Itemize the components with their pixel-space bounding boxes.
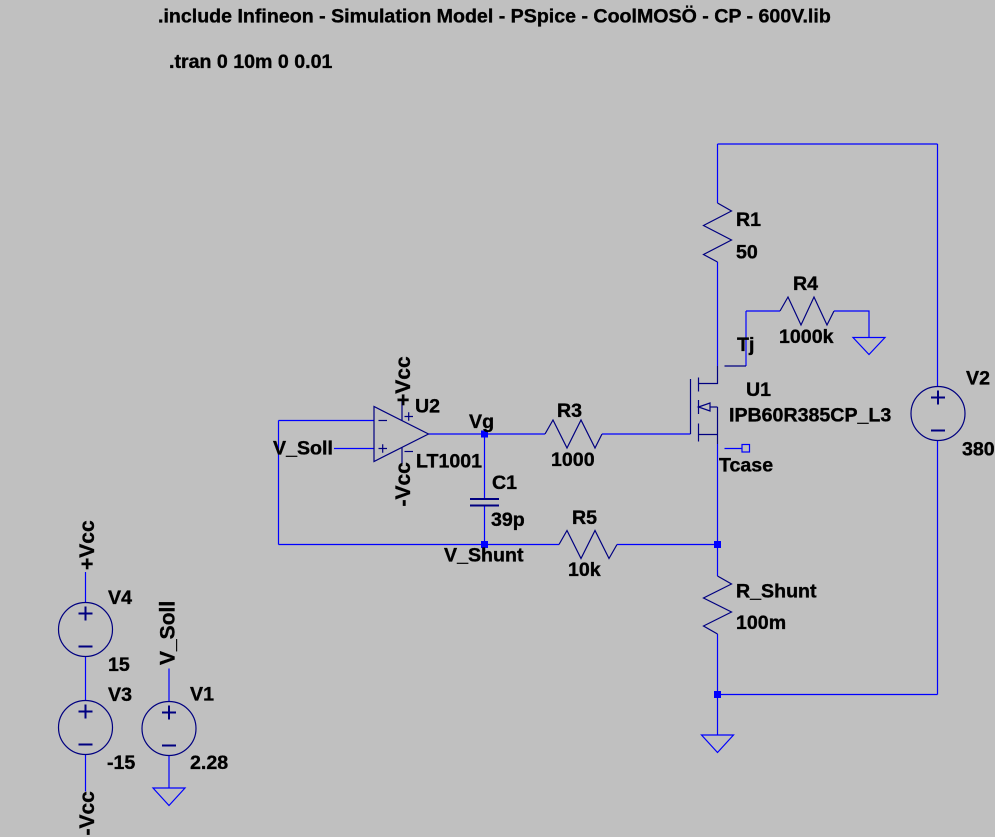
node bottom junction [714,691,721,698]
voltage source V4 plus [79,607,93,621]
svg-text:V2: V2 [966,368,990,390]
svg-text:V3: V3 [108,684,132,706]
op-amp U2 input minus [379,420,388,422]
wire V3 to -Vcc [85,755,87,792]
svg-text:+Vcc: +Vcc [392,356,415,406]
resistor R5 [559,531,617,559]
transistor U1 Tj pin lead [725,365,747,367]
wire R_Shunt to bottom node [717,634,719,695]
svg-text:-Vcc: -Vcc [76,791,99,836]
op-amp U2 V- minus mark [405,451,414,453]
svg-text:U2: U2 [415,396,440,418]
voltage source V1 minus [162,745,176,747]
wire top rail [718,143,938,145]
svg-text:-Vcc: -Vcc [392,462,415,507]
wire Vg to R3 [485,433,546,435]
svg-text:R_Shunt: R_Shunt [736,581,817,603]
wire feedback bottom rail [279,544,560,546]
node V_Shunt junction [481,541,488,548]
ground below V1 [153,788,185,806]
transistor U1 body arrowhead [699,403,711,411]
node source junction [714,541,721,548]
svg-text:V4: V4 [108,587,132,609]
wire V4 to V3 [85,657,87,701]
wire V1 to ground [168,756,170,789]
voltage source V2 circle [911,387,965,441]
wire bottom rail [718,694,938,696]
transistor U1 channel mid bar [698,400,700,414]
svg-text:1000: 1000 [551,449,595,471]
transistor U1 channel top bar [698,378,700,392]
wire Tcase stub [725,448,743,450]
svg-text:.include Infineon - Simulation: .include Infineon - Simulation Model - P… [158,5,831,28]
voltage source V3 circle [59,701,113,755]
wire Tj to R4 [746,310,780,312]
voltage source V4 minus [79,646,93,648]
voltage source V4 circle [59,603,113,657]
svg-text:Vg: Vg [469,411,494,433]
wire Vg to C1 [484,434,486,499]
wire V_Soll to noninverting input [334,448,374,450]
wire feedback to inverting input [279,420,375,422]
transistor U1 source stub [699,434,718,436]
svg-text:-15: -15 [107,752,135,774]
voltage source V3 plus [79,705,93,719]
transistor U1 source lead [717,407,719,444]
wire V_Soll to V1 [168,669,170,702]
svg-text:R1: R1 [736,209,761,231]
resistor R4 [780,297,834,325]
wire R4 to ground [834,311,869,338]
resistor R1 [704,203,732,262]
node Vg junction [481,431,488,438]
transistor U1 gate bar [690,379,692,434]
wire R3 to gate [602,433,691,435]
wire feedback vertical [278,421,280,545]
svg-text:U1: U1 [746,379,771,401]
wire op-amp output [429,433,485,435]
ground right of R4 [853,338,885,355]
op-amp U2 V- pin [401,448,403,465]
svg-text:R5: R5 [572,507,597,529]
transistor U1 body arrow line [710,406,718,408]
wire Tj vertical [745,311,747,366]
transistor U1 channel bottom bar [698,424,700,442]
ground below bottom node [702,735,734,753]
wire R1 to drain [717,262,719,366]
svg-text:39p: 39p [491,509,525,531]
wire C1 to V_Shunt [484,506,486,545]
wire node to R_Shunt [717,545,719,577]
svg-text:10k: 10k [568,559,601,581]
op-amp U2 input plus [379,444,388,452]
wire right rail upper [937,144,939,387]
svg-text:+Vcc: +Vcc [76,520,99,570]
wire source to node [717,444,719,545]
op-amp U2 V+ plus mark [405,412,414,420]
svg-text:380: 380 [962,439,995,461]
op-amp U2 V+ pin [401,400,403,421]
svg-text:2.28: 2.28 [190,752,228,774]
svg-text:R4: R4 [793,273,818,295]
svg-text:.tran 0 10m 0 0.01: .tran 0 10m 0 0.01 [169,51,332,73]
svg-text:50: 50 [736,242,758,264]
svg-text:C1: C1 [492,472,517,494]
svg-text:Tcase: Tcase [719,455,773,477]
resistor R3 [545,420,602,448]
svg-text:LT1001: LT1001 [416,451,482,473]
svg-text:V_Soll: V_Soll [273,438,333,460]
wire right rail lower [937,441,939,695]
svg-text:1000k: 1000k [779,326,834,348]
svg-text:R3: R3 [557,400,582,422]
wire top to R1 [717,144,719,203]
unconnected pin square Tcase [742,445,750,453]
svg-text:V_Shunt: V_Shunt [444,545,524,567]
svg-text:15: 15 [108,654,130,676]
wire bottom node to ground [717,695,719,736]
voltage source V3 minus [79,744,93,746]
svg-text:IPB60R385CP_L3: IPB60R385CP_L3 [729,405,891,427]
wire +Vcc to V4 [85,572,87,603]
op-amp U2 triangle [374,407,429,462]
svg-text:V1: V1 [190,684,214,706]
wire R5 to node [617,544,718,546]
resistor R_Shunt [704,576,732,634]
voltage source V1 plus [162,706,176,720]
voltage source V1 circle [142,702,196,756]
svg-text:Tj: Tj [737,334,754,356]
voltage source V2 plus [931,391,945,405]
svg-text:V_Soll: V_Soll [157,601,180,665]
transistor U1 drain stub [699,366,718,384]
voltage source V2 minus [931,430,945,432]
svg-text:100m: 100m [736,612,786,634]
capacitor C1 [470,499,499,506]
